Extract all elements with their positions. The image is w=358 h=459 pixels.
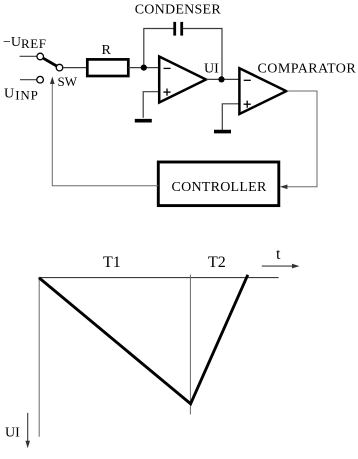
- wire comparator output to controller: [282, 91, 317, 187]
- label -UREF: [3, 35, 47, 51]
- wire integrator output: [207, 78, 239, 80]
- ground comparator: [214, 130, 231, 134]
- wire integrator plus input to ground: [143, 92, 158, 118]
- switch pole node: [56, 64, 63, 71]
- svg-text:CONTROLLER: CONTROLLER: [172, 180, 267, 195]
- divider line T1/T2: [189, 275, 191, 415]
- wire capacitor left branch: [144, 29, 174, 68]
- controller box: [158, 162, 278, 206]
- wire comparator plus input to ground: [222, 104, 239, 130]
- resistor R: [87, 59, 128, 76]
- svg-text:UI: UI: [204, 62, 219, 77]
- wire terminal lead upper: [20, 55, 37, 57]
- svg-text:T2: T2: [208, 254, 226, 271]
- svg-text:U: U: [4, 87, 14, 102]
- axis UI vertical: [38, 277, 40, 437]
- svg-text:REF: REF: [21, 36, 47, 51]
- comparator plus pin: [244, 101, 251, 108]
- comparator minus pin: [244, 79, 251, 81]
- svg-text:CONDENSER: CONDENSER: [135, 3, 222, 18]
- arrow to switch SW: [50, 77, 55, 85]
- integrator minus pin: [164, 67, 171, 69]
- wire capacitor right branch: [183, 29, 222, 80]
- waveform UI ramp: [39, 275, 248, 404]
- arrow t axis: [262, 264, 300, 269]
- integrator plus pin: [163, 89, 170, 96]
- op-amp integrator: [159, 57, 206, 103]
- arrow into controller: [280, 185, 288, 190]
- wire switch to resistor: [63, 67, 87, 69]
- terminal node -UREF: [37, 53, 44, 60]
- axis t horizontal: [39, 277, 279, 279]
- svg-text:SW: SW: [58, 74, 78, 89]
- svg-text:T1: T1: [103, 254, 121, 271]
- node UI: [218, 76, 224, 82]
- arrow UI axis down: [25, 413, 30, 448]
- svg-text:COMPARATOR: COMPARATOR: [258, 62, 357, 77]
- node junction A: [141, 65, 147, 71]
- svg-text:UI: UI: [5, 426, 20, 441]
- label U INP: [4, 87, 39, 103]
- wire terminal lead lower: [20, 79, 37, 81]
- svg-text:R: R: [102, 43, 112, 58]
- wire resistor to op-amp: [128, 67, 158, 69]
- switch SW lever: [40, 57, 59, 68]
- svg-text:INP: INP: [15, 88, 38, 103]
- capacitor CONDENSER: [175, 22, 182, 36]
- svg-text:−U: −U: [3, 35, 21, 50]
- svg-text:t: t: [276, 246, 281, 263]
- wire controller feedback to switch: [52, 80, 158, 186]
- ground integrator: [135, 119, 152, 123]
- terminal node U INP: [37, 76, 44, 83]
- op-amp COMPARATOR: [239, 68, 286, 114]
